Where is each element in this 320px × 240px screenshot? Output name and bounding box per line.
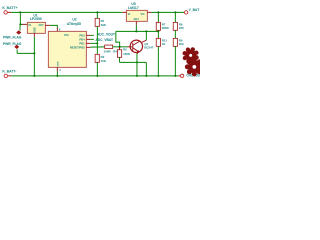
wire bottom GND rail	[11, 75, 178, 77]
wire PWR_FLAG2 to GND net	[17, 52, 34, 54]
svg-text:VCC: VCC	[64, 34, 69, 37]
junction GND rail x158	[157, 75, 159, 77]
PWR_FLAG 2 flag	[14, 45, 19, 49]
wire LP2950 OUT to U2 VCC	[50, 25, 58, 27]
connector K_BATT- pin circle	[4, 74, 7, 77]
pin stub LP2950 IN	[22, 23, 27, 25]
junction base node	[119, 46, 121, 48]
svg-text:PB4: PB4	[79, 38, 85, 42]
wire R9 down	[174, 46, 176, 76]
svg-text:ATtiny85: ATtiny85	[67, 22, 81, 26]
wire R7 to rail	[157, 30, 159, 38]
pin stub U2 RESET	[86, 46, 90, 48]
PWR_FLAG 1 pole	[19, 24, 21, 30]
svg-text:R5: R5	[123, 48, 127, 52]
svg-text:IN: IN	[29, 24, 32, 27]
logo gear small	[182, 47, 199, 64]
junction GND rail x136	[136, 75, 138, 77]
junction out rail x175	[174, 11, 176, 13]
wire top rail BATT+	[11, 11, 122, 13]
svg-text:BC547: BC547	[144, 46, 153, 50]
resistor R2	[95, 54, 99, 62]
junction at LP2950 IN branch	[19, 23, 21, 25]
svg-text:PWR_FLAG: PWR_FLAG	[3, 42, 22, 46]
connector K_BAT+ pin circle	[184, 11, 187, 14]
pin stub U5 ADJ	[135, 21, 137, 25]
transistor Q1 body circle	[130, 40, 142, 52]
wire U5 ADJ to rail	[135, 25, 137, 32]
junction GND rail x34	[33, 75, 35, 77]
R1 wires	[96, 12, 98, 18]
wire ADJ rail y31	[116, 30, 159, 32]
wire LP2950 GND down	[33, 37, 35, 76]
regulator U5 LM317 body	[126, 10, 147, 21]
svg-text:U2: U2	[72, 18, 76, 22]
svg-text:150K: 150K	[123, 52, 131, 56]
pin stub U2 PB4	[86, 38, 90, 40]
wire stub PB4	[90, 38, 94, 40]
wire feedback x158 top	[157, 12, 159, 22]
wire R5 down	[119, 57, 121, 62]
resistor R7	[156, 22, 160, 30]
svg-text:ADJ: ADJ	[134, 17, 140, 21]
wire x175 top	[174, 12, 176, 22]
junction GND at x34 y53	[33, 52, 35, 54]
svg-text:39K: 39K	[101, 23, 107, 27]
junction top rail at x20	[19, 11, 21, 13]
svg-text:10K: 10K	[101, 59, 107, 63]
svg-text:2R08: 2R08	[162, 26, 169, 30]
Q1 base stub	[127, 46, 132, 48]
svg-text:300: 300	[179, 42, 184, 46]
resistor R11	[156, 38, 160, 46]
svg-text:VO: VO	[141, 12, 145, 16]
svg-text:ADC_VBAT: ADC_VBAT	[95, 38, 113, 42]
resistor R5	[117, 50, 121, 58]
connector K_BATT+ pin circle	[4, 11, 7, 14]
junction ADJ rail x146	[145, 30, 147, 32]
PWR_FLAG 1 flag	[16, 30, 21, 34]
junction out rail x158	[157, 11, 159, 13]
resistor R6	[173, 22, 177, 30]
wire emitter net y62	[120, 61, 147, 63]
junction GND rail x97	[96, 75, 98, 77]
regulator U1 LP2950 body	[27, 22, 45, 33]
svg-text:GND: GND	[58, 61, 60, 66]
junction top rail at x97	[96, 11, 98, 13]
R2 wire down	[96, 62, 98, 76]
wire U2 GND down	[56, 71, 58, 76]
pin stub LP2950 GND	[33, 33, 35, 37]
svg-text:ADC_VOUT: ADC_VOUT	[97, 33, 115, 37]
svg-text:LM317: LM317	[128, 6, 139, 10]
pin stub LP2950 OUT	[45, 24, 50, 26]
junction GND rail x57	[56, 75, 58, 77]
svg-text:V_BAT: V_BAT	[189, 8, 200, 12]
pin stub U5 VI	[122, 11, 126, 13]
logo gear large	[185, 57, 204, 76]
pin stub U2 GND	[56, 67, 58, 71]
junction ADJ rail x136	[135, 30, 137, 32]
svg-text:VI: VI	[128, 12, 131, 16]
junction GND rail x146	[145, 75, 147, 77]
Q1 collector diagonal	[133, 41, 140, 45]
wire R4 to Q1 base	[113, 46, 128, 48]
pin stub U5 VO	[147, 11, 151, 13]
wire Q1 emitter down	[136, 53, 138, 76]
junction ADJ rail x158	[157, 30, 159, 32]
svg-text:PWR_FLAG: PWR_FLAG	[3, 35, 22, 39]
PWR_FLAG 2 pole	[16, 49, 18, 53]
wire R11 down	[157, 46, 159, 76]
resistor R9	[173, 38, 177, 46]
svg-text:K_BATT+: K_BATT+	[2, 6, 17, 10]
wire stub PB3	[90, 34, 94, 36]
R5 top stub	[119, 47, 121, 50]
wire drop to LP2950 IN	[20, 12, 23, 24]
Q1 emitter diagonal with arrow	[133, 48, 139, 52]
wire ADJ drop to base node	[116, 31, 120, 46]
svg-text:R4: R4	[113, 49, 117, 53]
svg-text:OUT: OUT	[39, 24, 45, 27]
junction GND rail x175	[174, 75, 176, 77]
junction emitter y62	[136, 61, 138, 63]
mcu U2 body	[48, 31, 86, 67]
resistor R1	[95, 18, 99, 26]
svg-text:PB3: PB3	[79, 34, 85, 38]
svg-text:K_BATT-: K_BATT-	[2, 70, 16, 74]
wire PB1 to divider	[90, 42, 97, 44]
pin stub CHG_OUT	[178, 75, 180, 77]
junction divider tap	[96, 42, 98, 44]
svg-text:PB1: PB1	[79, 42, 85, 46]
svg-text:LP2950: LP2950	[30, 17, 42, 21]
wire emitter net x146 down	[145, 62, 147, 76]
pin stub U2 VCC	[56, 27, 58, 31]
pin stub K_BATT-	[8, 75, 12, 77]
pin stub U2 PB3	[86, 34, 90, 36]
transistor Q1 collector wire	[145, 31, 147, 40]
svg-text:GND: GND	[34, 27, 37, 33]
svg-text:180: 180	[179, 26, 184, 30]
svg-text:100R: 100R	[104, 49, 112, 53]
Q1 base bar	[132, 43, 134, 51]
pin stub K_BATT+	[8, 11, 12, 13]
resistor R4	[105, 45, 113, 48]
pin stub U2 PB1	[86, 42, 90, 44]
connector CHG_OUT pin circle	[181, 74, 184, 77]
wire RESET to R4	[90, 46, 104, 48]
wire R6 to R9	[174, 30, 176, 38]
Q1 collector stub	[141, 40, 146, 43]
wire top rail out	[151, 11, 184, 13]
svg-text:RESET/PB5: RESET/PB5	[70, 46, 85, 50]
Q1 emitter stub	[137, 52, 139, 54]
